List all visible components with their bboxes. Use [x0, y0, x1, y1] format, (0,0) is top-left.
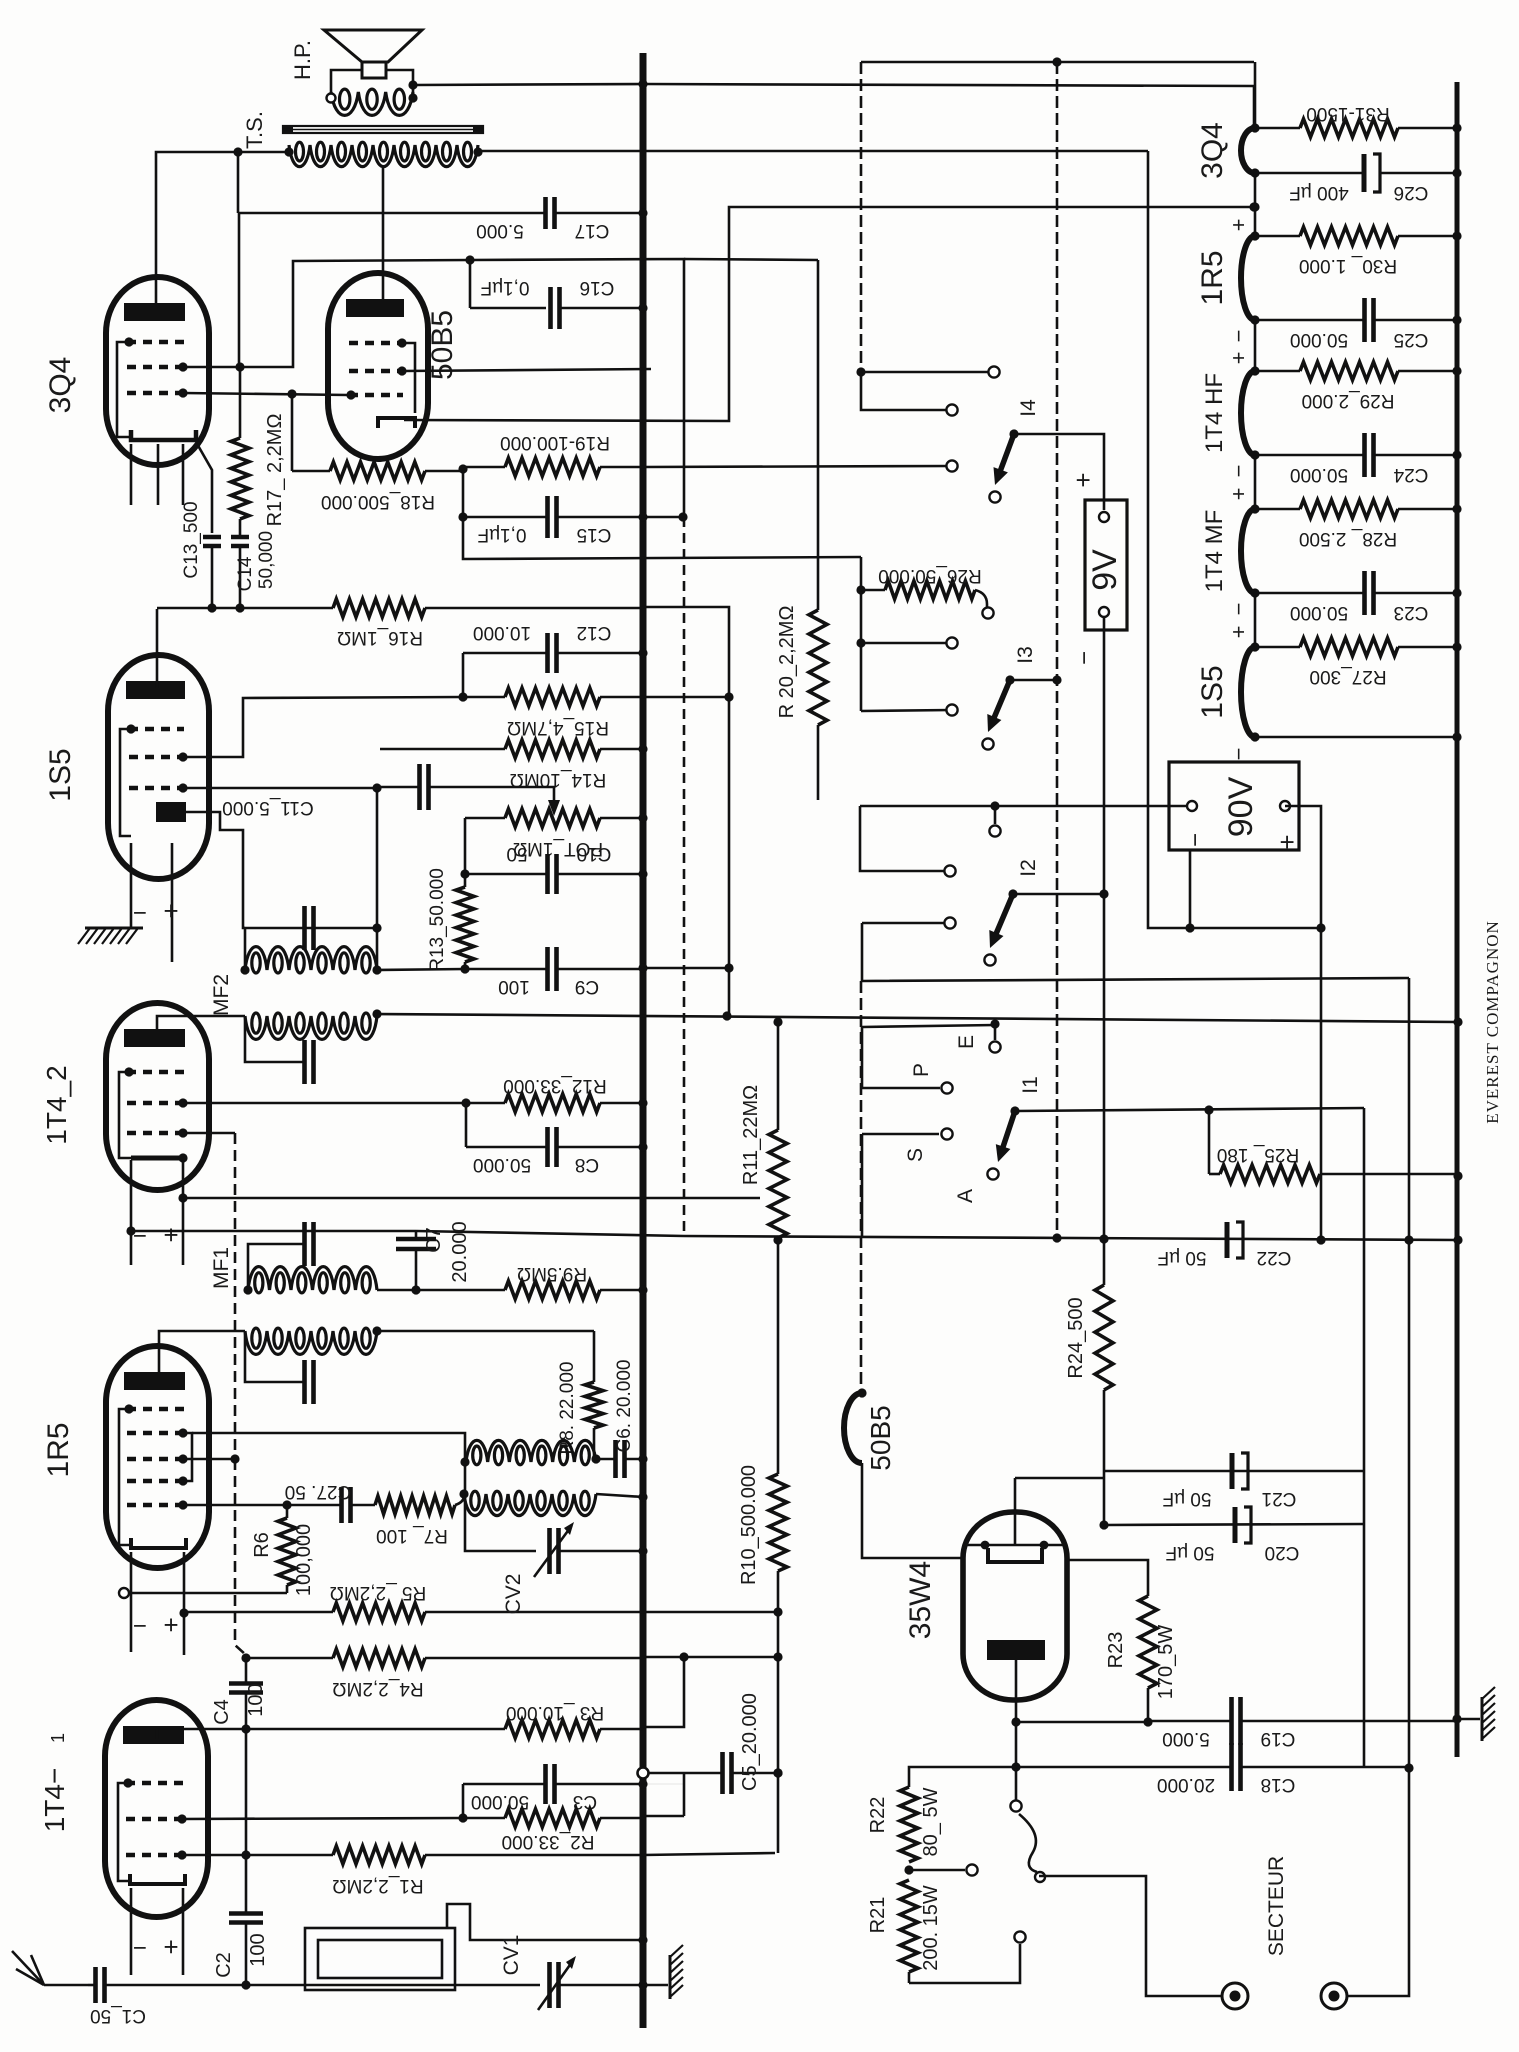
label C10 name	[577, 843, 612, 864]
junction R10 R4	[773, 1652, 782, 1661]
svg-text:C1_50: C1_50	[90, 2005, 146, 2026]
transformer MF2 primary box	[245, 928, 377, 970]
capacitor C17 5.000	[238, 197, 643, 229]
wire switch to secteur	[1039, 1876, 1222, 1996]
label 1R5	[1196, 250, 1229, 305]
label chain −	[1226, 330, 1251, 343]
junction fil 1R5 bot	[1250, 315, 1259, 324]
junction right bus C26	[1452, 168, 1461, 177]
wire center column	[1056, 62, 1059, 1240]
svg-text:1S5: 1S5	[1196, 665, 1229, 718]
resistor R5 2,2MΩ	[184, 1603, 643, 1621]
svg-text:R21: R21	[867, 1897, 889, 1934]
junction right bus R31	[1452, 123, 1461, 132]
arrow CV1	[538, 1956, 576, 2010]
label C22 value	[1158, 1247, 1207, 1268]
svg-text:R12_33.000: R12_33.000	[503, 1075, 607, 1096]
resistor R21 200 15W	[900, 1880, 918, 1983]
tube 3Q4	[106, 277, 209, 465]
label C25 name	[1394, 329, 1429, 350]
label R15_4,7MΩ	[507, 717, 609, 738]
label R29_2.000	[1302, 390, 1395, 411]
svg-text:C26: C26	[1394, 182, 1429, 203]
svg-text:H.P.: H.P.	[290, 40, 315, 80]
label 9V minus	[1071, 651, 1098, 665]
svg-text:50.000: 50.000	[1290, 329, 1348, 350]
label C18 value	[1157, 1774, 1215, 1795]
label A	[954, 1189, 977, 1203]
junction MF2 sec right	[372, 1009, 381, 1018]
capacitor C22 50µF	[1227, 1222, 1243, 1258]
junction osc L2 left	[459, 1489, 468, 1498]
svg-text:+: +	[163, 1610, 178, 1640]
wire R7 hook	[455, 1494, 464, 1505]
svg-text:R4_2,2MΩ: R4_2,2MΩ	[332, 1678, 423, 1699]
capacitor C15 0,1µF	[463, 496, 683, 538]
capacitor C1 50	[88, 1967, 246, 2003]
wire 35W4 anode stem	[1014, 1478, 1017, 1545]
junction bus C10	[638, 869, 647, 878]
resistor R9 5MΩ	[505, 1281, 643, 1299]
contact tap	[966, 1864, 977, 1875]
wire secteur to C18 col	[1347, 1768, 1409, 1996]
contact I2 moving	[984, 954, 995, 965]
capacitor C21 50µF	[1232, 1453, 1248, 1489]
svg-text:+: +	[163, 1220, 178, 1250]
transformer T.S. core	[283, 125, 483, 134]
label plus 1R5	[163, 1610, 178, 1640]
svg-text:+: +	[1226, 626, 1251, 639]
wire frame row	[1190, 927, 1321, 930]
wire switch column A	[860, 62, 863, 372]
wire 90V minus row	[860, 805, 1192, 808]
wire 1S5 grid3 row	[183, 787, 377, 790]
svg-text:MF1: MF1	[210, 1247, 233, 1289]
label R21	[867, 1897, 889, 1934]
junction E	[990, 1019, 999, 1028]
capacitor C27 50	[287, 1487, 375, 1523]
junction screen rail	[465, 255, 474, 264]
label 90V minus	[1182, 833, 1209, 847]
capacitor C9 100	[465, 947, 643, 991]
wire I2 stub3	[862, 922, 950, 925]
junction right bus ground	[1452, 1714, 1461, 1723]
svg-text:100,000: 100,000	[293, 1524, 315, 1596]
junction I2 column	[1099, 889, 1108, 898]
wire 1S5 fil to bus	[1255, 736, 1457, 739]
label R8.22.000	[557, 1362, 578, 1455]
svg-text:S: S	[904, 1148, 927, 1162]
junction column R4	[679, 1652, 688, 1661]
svg-text:C6. 20.000: C6. 20.000	[614, 1360, 635, 1453]
wire R25 left	[1208, 1110, 1211, 1174]
junction bus C6	[638, 1454, 647, 1463]
junction bus C8	[638, 1142, 647, 1151]
capacitor C10 50	[465, 854, 643, 894]
label R1_2,2MΩ	[332, 1875, 423, 1896]
label R16_1MΩ	[337, 627, 423, 648]
junction fil 1S5 bot	[1250, 732, 1259, 741]
capacitor C3 50.000	[463, 1764, 643, 1804]
label 1S5	[44, 748, 77, 801]
wire 35W4 plate to R23	[1067, 1560, 1148, 1596]
wire S stub	[862, 1133, 939, 1136]
junction MF1 sec right	[372, 1326, 381, 1335]
wire switch column B	[860, 557, 863, 711]
wire C11 to pot arm	[470, 787, 554, 806]
svg-text:−: −	[1226, 465, 1251, 478]
label R4_2,2MΩ	[332, 1678, 423, 1699]
svg-text:1: 1	[48, 1733, 68, 1743]
svg-text:C5_20.000: C5_20.000	[739, 1693, 761, 1791]
transformer MF1 secondary box	[245, 1331, 303, 1382]
wire right bus	[1455, 82, 1460, 1757]
label E	[955, 1035, 978, 1049]
svg-text:1S5: 1S5	[44, 748, 77, 801]
ground main	[670, 1945, 683, 1999]
junction fil 1R5 top	[1250, 231, 1259, 240]
label C21 name	[1262, 1488, 1297, 1509]
junction C18 left	[1011, 1762, 1020, 1771]
svg-text:C24: C24	[1393, 464, 1428, 485]
label C3 name	[573, 1791, 597, 1812]
junction R23 bottom	[1143, 1717, 1152, 1726]
resistor R10 500.000	[769, 1240, 787, 1612]
resistor R29	[1255, 362, 1457, 380]
wire 1T4_2 grid2 row	[183, 1102, 466, 1105]
contact I2 a	[989, 825, 1000, 836]
wire I3 stub1	[861, 642, 952, 645]
svg-text:50.000: 50.000	[473, 1154, 531, 1175]
contact I4 a	[988, 366, 999, 377]
label C16 value	[481, 277, 530, 298]
inductor MF2 secondary	[245, 1013, 377, 1039]
svg-text:+: +	[1272, 834, 1302, 849]
label chain −	[1226, 465, 1251, 478]
svg-text:50B5: 50B5	[865, 1405, 896, 1470]
wire R4 ext	[643, 1656, 778, 1659]
junction MF2 coil left	[240, 965, 249, 974]
label 1T4_2	[41, 1065, 72, 1144]
svg-text:R3 _10.000: R3 _10.000	[506, 1702, 604, 1723]
label minus 1T4_2	[133, 1222, 147, 1249]
wire I4 stub2	[861, 372, 952, 410]
contact E	[989, 1041, 1000, 1052]
svg-text:50 µF: 50 µF	[1166, 1542, 1215, 1563]
svg-text:I1: I1	[1019, 1076, 1042, 1094]
svg-text:C22: C22	[1257, 1247, 1292, 1268]
wire grid node down to R18	[291, 394, 294, 471]
label C26 value	[1289, 182, 1349, 203]
label 35W4	[904, 1561, 937, 1639]
wire C9 ext	[643, 967, 729, 970]
terminal SECTEUR left	[1222, 1983, 1248, 2009]
label plus 1S5	[163, 896, 178, 926]
label chain +	[1226, 488, 1251, 501]
wire R12 to C8	[465, 1103, 468, 1147]
svg-text:+: +	[1226, 219, 1251, 232]
junction cathode C19	[1011, 1717, 1020, 1726]
svg-text:+: +	[1068, 472, 1098, 487]
wire right column A	[1408, 978, 1411, 1768]
label 170_5W	[1155, 1625, 1177, 1700]
capacitor C20 50µF	[1235, 1507, 1251, 1543]
wire main bus (chassis)	[640, 53, 647, 2028]
wire R2 ext	[643, 1815, 684, 1818]
resistor R26 50.000	[861, 581, 975, 599]
svg-text:400 µF: 400 µF	[1289, 182, 1349, 203]
wire R10 column down	[777, 1612, 780, 1853]
wire down to C17 row	[237, 152, 240, 213]
resistor R11 22MΩ	[769, 1022, 787, 1240]
wire c3ext0	[643, 1784, 684, 1818]
contact 9V plus	[1099, 512, 1109, 522]
junction MF2 coil right	[372, 965, 381, 974]
junction right bus E row	[1453, 1017, 1462, 1026]
contact I2 b	[944, 865, 955, 876]
contact I4 b	[946, 460, 957, 471]
svg-text:R19-100.000: R19-100.000	[500, 432, 610, 453]
label R3_10.000	[506, 1702, 604, 1723]
junction speaker lead	[408, 80, 417, 89]
wire R24 to C21 row	[1103, 1390, 1106, 1471]
label R28_ 2.500	[1299, 528, 1397, 549]
antenna	[12, 1951, 88, 1985]
contact mains switch a	[1010, 1800, 1021, 1811]
svg-text:−: −	[1226, 748, 1251, 761]
svg-text:T.S.: T.S.	[242, 111, 267, 149]
junction R5 feed	[179, 1608, 188, 1617]
label R30_ 1.000	[1299, 255, 1397, 276]
resistor R30	[1255, 227, 1457, 245]
junction bus C17	[638, 208, 647, 217]
svg-text:R18_500.000: R18_500.000	[321, 491, 435, 512]
wire 1T4-1 leg minus	[130, 1888, 133, 1975]
label 50.000	[256, 531, 277, 589]
junction dashed column top	[1052, 57, 1061, 66]
svg-text:1R5: 1R5	[1196, 250, 1229, 305]
wire top B+ to chain	[643, 84, 1254, 128]
contact I4 moving	[989, 491, 1000, 502]
label C26 name	[1394, 182, 1429, 203]
switch I3	[987, 675, 1014, 732]
wire 1R5 grid5 row	[183, 1504, 287, 1507]
resistor R25 180	[1209, 1165, 1458, 1183]
label C8 name	[575, 1154, 599, 1175]
junction right bus C24	[1452, 450, 1461, 459]
wire 50B5 fil to 35W4	[862, 1463, 963, 1558]
label 90V	[1222, 776, 1260, 837]
junction C14 bottom	[235, 603, 244, 612]
wire 1T4_2 leg minus	[130, 1160, 133, 1265]
label plus 1T4-1	[163, 1932, 178, 1962]
filament arc 1R5	[1241, 236, 1255, 320]
svg-text:R1_2,2MΩ: R1_2,2MΩ	[332, 1875, 423, 1896]
wire C16 left	[470, 307, 546, 310]
resistor R18 500.000	[292, 462, 463, 480]
svg-text:−: −	[133, 899, 147, 926]
wire S column	[861, 1134, 864, 1236]
wire 35W4 cathode down	[1015, 1660, 1018, 1806]
label 80_5W	[920, 1787, 942, 1856]
svg-text:+: +	[163, 896, 178, 926]
label 3Q4	[44, 357, 77, 414]
antenna coil frame	[305, 1928, 455, 1990]
wire speaker to bus	[413, 84, 643, 85]
junction col A C22	[1404, 1235, 1413, 1244]
svg-text:C23: C23	[1394, 602, 1429, 623]
svg-text:C15: C15	[577, 524, 612, 545]
wire antenna row	[246, 1984, 540, 1987]
junction C10	[460, 869, 469, 878]
label R5_2,2MΩ	[330, 1582, 427, 1603]
wire long row to right column	[862, 923, 1409, 981]
svg-text:R5 _2,2MΩ: R5 _2,2MΩ	[330, 1582, 427, 1603]
label I4	[1017, 399, 1040, 417]
wire R26 hook	[975, 590, 987, 608]
label 3Q4	[1196, 122, 1229, 179]
svg-text:R6: R6	[251, 1532, 273, 1558]
junction grid drive	[287, 389, 296, 398]
switch I4	[994, 429, 1019, 485]
label C12 value	[473, 622, 531, 643]
resistor R2 33.000	[463, 1809, 643, 1827]
label C5_20.000	[739, 1693, 761, 1791]
wire to ground	[643, 1984, 668, 1987]
transformer T.S. primary coil	[289, 142, 478, 166]
label C24 value	[1290, 464, 1348, 485]
junction grid3 column	[230, 1454, 239, 1463]
junction osc L1 left	[460, 1457, 469, 1466]
wire switch column C	[860, 981, 863, 1393]
junction C2 bottom	[241, 1980, 250, 1989]
wire screen rail to R20	[684, 259, 818, 260]
label CV2	[502, 1574, 525, 1615]
wire stub	[239, 367, 241, 380]
junction osc R8 C6	[591, 1454, 600, 1463]
switch mains	[1019, 1814, 1037, 1872]
svg-text:P: P	[910, 1063, 933, 1077]
label C19 value	[1162, 1728, 1210, 1749]
label 100.000	[293, 1524, 315, 1596]
junction right bus R30	[1452, 231, 1461, 240]
junction R26	[856, 585, 865, 594]
wire C3 box	[462, 1784, 465, 1818]
wire 3Q4 leg 2	[157, 444, 160, 505]
junction right bus fil	[1452, 732, 1461, 741]
svg-text:A: A	[954, 1189, 977, 1203]
contact I3 moving	[982, 738, 993, 749]
svg-text:C19: C19	[1261, 1728, 1296, 1749]
capacitor C12 10.000	[463, 633, 643, 673]
svg-text:C7: C7	[423, 1227, 445, 1253]
inductor MF1 secondary	[245, 1328, 377, 1354]
svg-text:R11_22MΩ: R11_22MΩ	[740, 1085, 762, 1185]
wire L1 right	[595, 1459, 598, 1462]
label R2_33.000	[502, 1831, 595, 1852]
wire I3 to column	[1010, 679, 1057, 682]
label R14_10MΩ	[510, 769, 607, 790]
junction C3 R2	[458, 1813, 467, 1822]
contact I2 c	[944, 917, 955, 928]
junction R15 left	[458, 692, 467, 701]
wire 1S5 leg plus	[171, 843, 174, 962]
label R20_2,2MΩ	[776, 606, 798, 719]
wire stub 90V	[1189, 850, 1192, 928]
inductor MF2 primary	[245, 947, 377, 973]
resistor R14 10MΩ	[380, 740, 643, 758]
label C15 value	[478, 524, 527, 545]
capacitor MF2 primary tuning	[305, 906, 314, 950]
svg-text:200. 15W: 200. 15W	[920, 1885, 942, 1971]
wire grid column	[234, 1133, 237, 1459]
junction chain 207	[1250, 202, 1259, 211]
wire chain link3	[1254, 455, 1257, 509]
junction bus coil	[638, 1935, 647, 1944]
junction I2 stub	[990, 801, 999, 810]
label R7_100	[376, 1525, 448, 1546]
label R31-1500	[1306, 103, 1389, 124]
label C16 name	[580, 277, 615, 298]
label R25_180	[1217, 1144, 1299, 1165]
svg-text:5.000: 5.000	[1162, 1728, 1210, 1749]
label plus 1T4_2	[163, 1220, 178, 1250]
transformer MF1 primary box	[248, 1244, 303, 1290]
junction R13 bottom	[460, 964, 469, 973]
resistor R22 80 5W	[900, 1787, 918, 1862]
svg-text:R25_ 180: R25_ 180	[1217, 1144, 1299, 1165]
junction right bus R25	[1453, 1171, 1462, 1180]
label C21 value	[1163, 1488, 1212, 1509]
label C15 name	[577, 524, 612, 545]
tube 1R5	[106, 1346, 209, 1568]
label C10 value	[506, 843, 527, 864]
junction right bus C25	[1452, 315, 1461, 324]
wire tap stub	[909, 1869, 965, 1872]
svg-text:90V: 90V	[1222, 776, 1260, 837]
label chain +	[1226, 626, 1251, 639]
svg-text:C25: C25	[1394, 329, 1429, 350]
pot wiper arrow	[548, 800, 560, 816]
svg-text:170_5W: 170_5W	[1155, 1625, 1177, 1700]
label C20 value	[1166, 1542, 1215, 1563]
wire C12 to R15	[462, 653, 465, 698]
wire 1R5 grid3	[183, 1458, 235, 1461]
capacitor C26	[1255, 154, 1457, 192]
junction bus C15	[638, 512, 647, 521]
speaker voice coil	[331, 89, 413, 115]
svg-text:9V: 9V	[1086, 549, 1124, 591]
ground right	[1482, 1687, 1495, 1741]
junction C15	[458, 512, 467, 521]
capacitor C16 0,1µF	[551, 287, 644, 329]
wire 1T4-1 leg plus	[182, 1888, 185, 1975]
label C14	[235, 556, 256, 591]
junction bus C12	[638, 648, 647, 657]
svg-text:I4: I4	[1017, 399, 1040, 417]
label 9V plus	[1068, 472, 1098, 487]
svg-text:−: −	[133, 1612, 147, 1639]
label minus 1T4-1	[133, 1934, 147, 1961]
junction C13 bottom	[207, 603, 216, 612]
svg-text:C2: C2	[213, 1952, 235, 1978]
wire P stub	[862, 1027, 940, 1088]
label R24_500	[1065, 1297, 1087, 1378]
capacitor MF1 secondary tuning	[305, 1360, 314, 1404]
svg-text:I2: I2	[1017, 859, 1040, 877]
resistor R8 22.000	[585, 1331, 603, 1459]
svg-text:I3: I3	[1014, 646, 1037, 664]
